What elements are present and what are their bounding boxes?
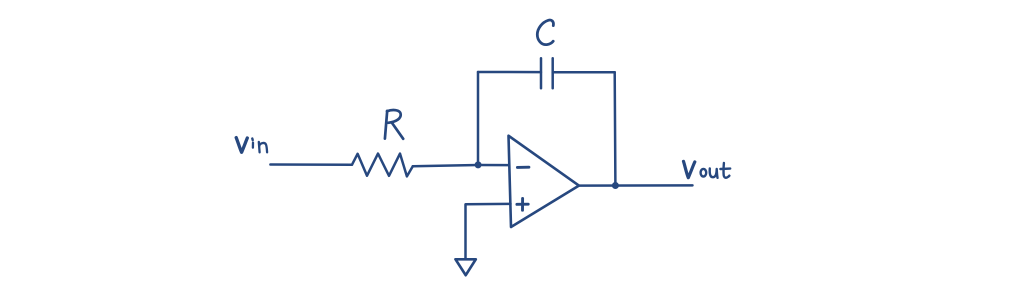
wire node A to op-amp minus input [478,164,509,167]
label Vin [236,138,267,153]
capacitor C1 right plate [551,58,554,88]
op-amp minus symbol [517,166,529,169]
wire plus input to ground drop [466,204,511,259]
node B junction dot (output/feedback) [612,182,619,189]
wire feedback top left to capacitor [478,71,541,74]
wire feedback right leg down to output node [613,72,616,185]
label Vout [684,161,731,177]
op-amp plus symbol [517,198,528,210]
label R [385,110,403,139]
op-amp U1 triangle [509,136,579,227]
label C [537,20,553,45]
wire resistor to inverting input node [413,165,478,166]
wire feedback left leg up [477,72,480,165]
wire op-amp output to Vout [579,184,693,187]
wire capacitor to feedback right leg [553,71,615,74]
ground [456,259,476,275]
node A junction dot (inverting input) [475,161,482,168]
capacitor C1 left plate [540,58,543,88]
wire Vin to resistor [270,163,352,166]
resistor R1 zigzag [352,154,413,177]
